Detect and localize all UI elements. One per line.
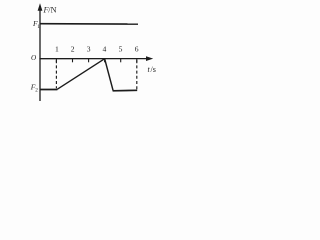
svg-text:/N: /N [48,5,56,14]
y-axis arrowhead [38,3,43,11]
tick t=3 [88,59,90,63]
svg-text:6: 6 [135,44,139,53]
x-axis (t axis) [39,58,148,60]
dashed guide at t=1 [55,60,57,88]
F1 constant level line [40,23,138,25]
x-axis arrowhead [146,56,153,61]
svg-text:1: 1 [37,24,40,30]
svg-text:5: 5 [119,44,123,53]
trace: falling segment 4 to 4.5 [105,59,113,91]
y-axis (F axis) [39,7,41,102]
tick t=4 [104,59,106,63]
tick t=6 [136,59,138,63]
tick t=2 [72,59,74,63]
tick t=5 [120,59,122,63]
dashed guide at t=6 [136,60,138,90]
svg-text:4: 4 [103,44,107,53]
svg-text:1: 1 [55,45,59,54]
svg-text:2: 2 [71,45,75,54]
trace: rising ramp 1 to 4 [57,59,104,90]
svg-text:/s: /s [151,65,156,74]
svg-text:2: 2 [35,88,38,94]
trace: -F2 segment 0 to 1 [40,89,57,91]
svg-text:3: 3 [87,45,91,54]
svg-text:O: O [31,54,37,62]
trace: -F2 segment 4.5 to 6 [113,89,138,92]
tick t=1 [55,59,57,63]
